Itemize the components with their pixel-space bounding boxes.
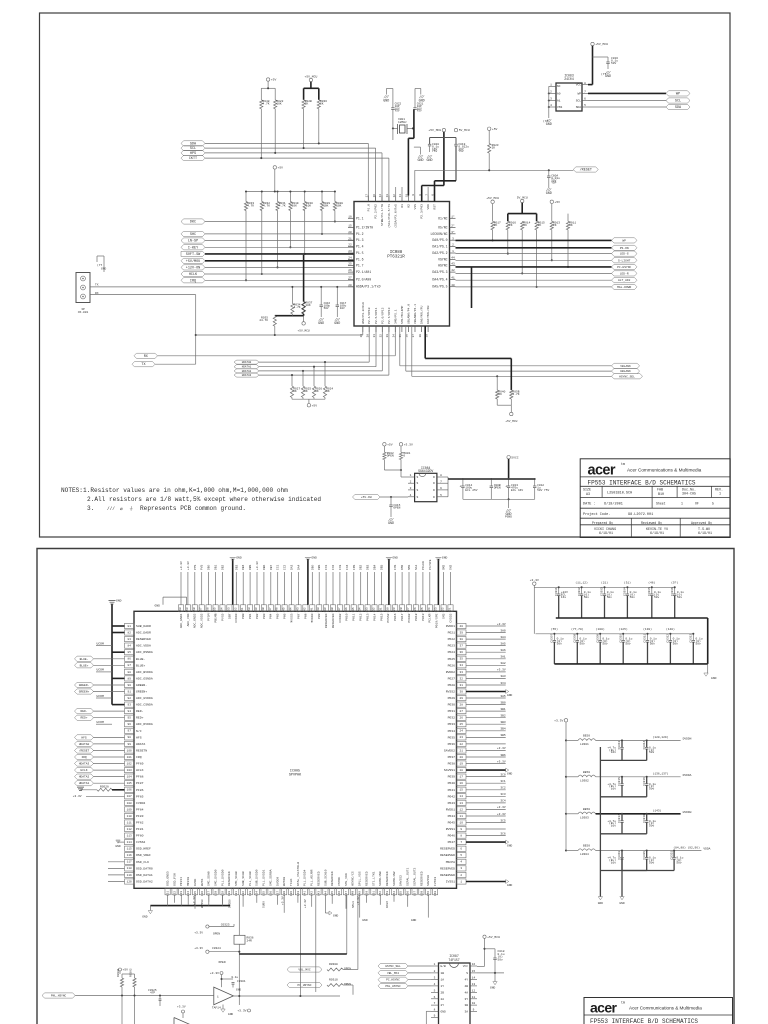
regulator IC084 cluster: [383, 443, 386, 446]
node bus-to-IC verticals: [367, 143, 369, 201]
svg-text:ADC_GND2: ADC_GND2: [193, 613, 197, 628]
svg-text:C0301: C0301: [555, 587, 558, 596]
svg-text:RESERVED: RESERVED: [316, 871, 320, 886]
svg-text:C0305: C0305: [648, 587, 651, 596]
svg-text:HFS: HFS: [136, 735, 142, 739]
svg-text:Sheet: Sheet: [656, 501, 666, 505]
svg-text:S: S: [417, 489, 419, 492]
wire right net p2: [466, 658, 506, 660]
wire /RESET p2: [94, 750, 125, 752]
svg-text:GND: GND: [442, 556, 448, 560]
svg-text:3B2: 3B2: [500, 715, 506, 718]
wire agnd thick stub: [112, 632, 125, 634]
svg-text:P1.0: P1.0: [366, 204, 370, 211]
svg-text:BE50: BE50: [583, 735, 590, 738]
svg-text:ADC_GND1: ADC_GND1: [179, 613, 183, 628]
svg-text:2K: 2K: [569, 224, 573, 227]
power +5V pull-up row: [273, 166, 276, 169]
svg-text:131: 131: [235, 891, 238, 896]
svg-text:98.L2072.001: 98.L2072.001: [628, 513, 653, 517]
svg-text:C0315: C0315: [618, 777, 621, 786]
svg-text:PT6321R: PT6321R: [387, 256, 405, 260]
svg-text:GND: GND: [619, 902, 625, 905]
svg-text:140: 140: [297, 891, 300, 896]
power +3.3V comp: [220, 972, 223, 975]
svg-text:37: 37: [412, 334, 415, 338]
svg-text:PCLKR: PCLKR: [428, 613, 432, 622]
wire VBLANK route: [399, 326, 401, 366]
svg-text:VBL_MX4: VBL_MX4: [387, 972, 399, 975]
svg-text:GND: GND: [318, 322, 324, 326]
svg-text:PF80: PF80: [136, 834, 144, 838]
svg-text:1: 1: [217, 996, 219, 999]
page 1 sheet border: [40, 13, 731, 537]
svg-text:IC1: IC1: [277, 564, 280, 570]
gnd eeprom: [546, 119, 551, 122]
svg-text:HSO/P3.0/RxD: HSO/P3.0/RxD: [361, 302, 365, 324]
svg-text:PS-ON: PS-ON: [620, 247, 629, 250]
flag /RESET p2: [75, 748, 94, 753]
svg-text:129: 129: [221, 891, 224, 896]
svg-text:+: +: [505, 486, 507, 490]
svg-text:13: 13: [460, 802, 464, 805]
svg-text:tm: tm: [621, 463, 625, 467]
wire IRQ p2: [94, 756, 125, 758]
wire bead gnd rails: [599, 747, 601, 897]
svg-text:P012: P012: [359, 613, 363, 620]
capacitor C014: [462, 479, 464, 486]
svg-text:DA4/PS.4: DA4/PS.4: [432, 277, 447, 281]
resistor R025: [302, 371, 304, 386]
gnd C020: [429, 146, 431, 152]
svg-text:156: 156: [407, 891, 410, 896]
svg-text:23: 23: [348, 250, 352, 253]
svg-text:SG6432DV: SG6432DV: [418, 469, 433, 473]
svg-text:IO5: IO5: [394, 564, 397, 570]
svg-text:24: 24: [460, 730, 464, 733]
capacitor C8301: [222, 978, 234, 980]
resistor R048: [260, 100, 263, 109]
wire +5V/MOU: [205, 260, 354, 262]
svg-text:SHC: SHC: [190, 233, 196, 237]
svg-text:2: 2: [434, 970, 436, 973]
svg-text:C0303: C0303: [601, 587, 604, 596]
svg-text:P017: P017: [400, 613, 404, 620]
wire HDATA3 p2: [94, 763, 125, 765]
svg-text:SAVSS0: SAVSS0: [426, 875, 430, 886]
wire HFS p2: [94, 736, 125, 738]
svg-text:RESETN: RESETN: [136, 749, 147, 753]
svg-text:DVDD: DVDD: [193, 879, 197, 886]
svg-text:SMC_SDA0: SMC_SDA0: [207, 871, 211, 886]
wire uart mid bus: [196, 334, 363, 336]
svg-text:2K: 2K: [320, 103, 324, 106]
wire PC-HSYNC: [456, 266, 612, 268]
svg-text:142: 142: [303, 607, 306, 612]
wire M001 net: [400, 460, 402, 477]
svg-text:HCLK: HCLK: [189, 273, 198, 277]
svg-text:C0310: C0310: [619, 634, 622, 643]
svg-text:3*: 3*: [451, 230, 455, 234]
wire right net p2: [466, 736, 506, 738]
svg-text:(125): (125): [619, 627, 628, 631]
svg-text:SOFT-SW: SOFT-SW: [186, 253, 201, 257]
svg-text:24C04: 24C04: [564, 77, 574, 81]
svg-text:OPEN: OPEN: [387, 454, 394, 457]
svg-text:IRQ: IRQ: [81, 756, 87, 759]
svg-text:13: 13: [386, 194, 389, 198]
svg-text:GND: GND: [228, 1013, 233, 1016]
wire agnd thick stub: [112, 651, 125, 653]
svg-text:PO25: PO25: [448, 657, 456, 661]
svg-text:HFS: HFS: [81, 736, 87, 739]
svg-text:3C3: 3C3: [500, 793, 506, 796]
svg-text:6/19/01: 6/19/01: [599, 531, 613, 536]
svg-text:PO21: PO21: [448, 631, 456, 635]
svg-text:PF85: PF85: [136, 794, 144, 798]
wire OSD stubs: [108, 861, 125, 863]
svg-text:10K: 10K: [336, 205, 341, 208]
svg-text:GND: GND: [507, 884, 513, 887]
svg-text:OPEN: OPEN: [494, 486, 501, 489]
svg-text:102: 102: [127, 762, 132, 765]
svg-text:MVSS3: MVSS3: [290, 613, 294, 622]
svg-text:154: 154: [393, 891, 396, 896]
svg-text:29: 29: [360, 334, 363, 338]
svg-text:(55): (55): [551, 627, 558, 631]
svg-text:/RESET: /RESET: [580, 168, 592, 173]
svg-text:GND: GND: [417, 159, 423, 163]
svg-text:42: 42: [451, 269, 455, 272]
svg-text:PO36: PO36: [448, 742, 456, 746]
svg-text:P2.6/OP12: P2.6/OP12: [380, 307, 384, 324]
svg-text:HDATA2: HDATA2: [242, 370, 252, 373]
svg-text:P2.4/OP10: P2.4/OP10: [367, 307, 371, 324]
svg-text:27: 27: [460, 710, 464, 713]
svg-text:139: 139: [324, 607, 327, 612]
svg-text:124: 124: [428, 607, 431, 612]
IC088 right pins: [450, 217, 456, 219]
svg-text:RVSS2: RVSS2: [446, 690, 455, 694]
capacitor C015: [390, 497, 392, 505]
svg-text:26: 26: [460, 717, 464, 720]
svg-text:P010: P010: [345, 613, 349, 620]
gnd C018: [493, 982, 497, 985]
svg-text:147: 147: [345, 891, 348, 896]
svg-text:4: 4: [410, 494, 412, 497]
svg-text:SH2: SH2: [450, 564, 453, 570]
svg-text:50v: 50v: [654, 596, 659, 599]
svg-text:CVDD2: CVDD2: [448, 613, 452, 622]
title row3 p1: [601, 486, 603, 497]
IC005 top wires and labels: [180, 572, 182, 605]
svg-text:108: 108: [127, 802, 132, 805]
wire C019 to RST: [455, 146, 457, 181]
svg-text:127: 127: [208, 891, 211, 896]
svg-text:34: 34: [393, 334, 396, 338]
svg-text:+3.3V: +3.3V: [304, 899, 307, 908]
svg-text:106: 106: [127, 789, 132, 792]
svg-text:14: 14: [460, 795, 464, 798]
svg-text:50v: 50v: [607, 596, 612, 599]
svg-text:103: 103: [127, 769, 132, 772]
svg-text:24: 24: [348, 257, 352, 260]
svg-text:P05: P05: [276, 613, 280, 619]
svg-text:16v: 16v: [561, 596, 566, 599]
svg-text:PC-HSYNC: PC-HSYNC: [617, 266, 631, 269]
svg-text:PLL_DVDD4: PLL_DVDD4: [303, 869, 307, 886]
svg-text:150: 150: [365, 891, 368, 896]
svg-text:3B5: 3B5: [500, 734, 506, 737]
svg-text:5: 5: [584, 104, 586, 107]
title row6 p1: [630, 518, 632, 537]
svg-text:+5V: +5V: [492, 127, 498, 131]
wire right net p2: [466, 802, 506, 804]
svg-text:HDATA3: HDATA3: [79, 763, 90, 766]
svg-text:OPEN: OPEN: [219, 961, 226, 964]
wire right net p2: [466, 828, 506, 830]
svg-text:K2: K2: [406, 204, 410, 208]
svg-text:RVSS1: RVSS1: [446, 827, 455, 831]
svg-text:TX: TX: [141, 363, 145, 367]
svg-text:KTAL_VSLSTKLH: KTAL_VSLSTKLH: [296, 862, 300, 886]
svg-text:ADC_RSNDA: ADC_RSNDA: [136, 650, 153, 654]
resistor R035: [273, 316, 276, 327]
svg-text:L0304: L0304: [580, 853, 589, 856]
wire right net p2: [466, 815, 506, 817]
svg-text:91: 91: [128, 690, 132, 693]
wire BLUE- p2: [94, 658, 125, 660]
svg-text:PVS5: PVS5: [220, 613, 224, 620]
wire C020/C019 bracket: [430, 137, 456, 139]
svg-text:PO44: PO44: [448, 814, 456, 818]
svg-text:GND: GND: [711, 676, 717, 680]
svg-text:87: 87: [128, 664, 132, 667]
wire R031 to row: [277, 211, 279, 268]
wire S row: [477, 972, 504, 974]
svg-text:143: 143: [297, 607, 300, 612]
svg-text:P1.7: P1.7: [356, 263, 364, 267]
IC005 right pin boxes: [457, 623, 467, 628]
svg-text:16v: 16v: [611, 825, 616, 828]
svg-text:138: 138: [331, 607, 334, 612]
svg-text:DB1: DB1: [215, 564, 218, 570]
resistor M001: [400, 446, 402, 452]
svg-text:GND: GND: [115, 845, 121, 848]
svg-text:GREEN-: GREEN-: [136, 683, 147, 687]
svg-text:30: 30: [460, 690, 464, 693]
svg-text:3C6: 3C6: [500, 832, 506, 835]
svg-text:29: 29: [460, 697, 464, 700]
wire right net p2: [466, 717, 506, 719]
svg-text:101: 101: [127, 756, 132, 759]
svg-text:134: 134: [359, 607, 362, 612]
wire right net p2: [466, 750, 506, 752]
svg-text:C8301: C8301: [237, 980, 246, 983]
svg-text:1: 1: [681, 501, 683, 505]
svg-text:RVDD2: RVDD2: [446, 670, 455, 674]
svg-text:+3.3V: +3.3V: [497, 813, 506, 816]
resistor R028: [334, 192, 336, 202]
svg-text:P018: P018: [414, 613, 418, 620]
IC088 top stubs: [395, 187, 397, 196]
svg-text:141: 141: [310, 607, 313, 612]
flag ALT_ADJ: [612, 278, 638, 283]
svg-text:2K: 2K: [326, 390, 330, 393]
svg-text:141: 141: [304, 891, 307, 896]
svg-text:Prepared By: Prepared By: [592, 521, 613, 525]
svg-text:23: 23: [460, 736, 464, 739]
svg-text:DKC: DKC: [190, 221, 196, 225]
wire WP: [456, 239, 612, 241]
svg-text:+3.3V: +3.3V: [497, 806, 506, 809]
wire MAL-DOWN: [456, 286, 612, 288]
gnd comp: [222, 1005, 224, 1010]
svg-text:50v: 50v: [584, 596, 589, 599]
svg-text:16v: 16v: [611, 751, 616, 754]
wire L0304 net: [596, 850, 702, 852]
svg-text:100: 100: [127, 749, 132, 752]
wire R013 down: [551, 230, 553, 260]
svg-text:3C5: 3C5: [500, 819, 506, 822]
gnd C016 uart: [319, 318, 324, 321]
wire right net p2: [466, 677, 506, 679]
flag /RESET: [573, 167, 598, 172]
svg-text:L0303: L0303: [580, 816, 589, 819]
svg-text:32: 32: [460, 677, 464, 680]
svg-text:C0320: C0320: [643, 851, 646, 860]
svg-text:36: 36: [460, 651, 464, 654]
svg-text:(31): (31): [624, 581, 631, 585]
svg-text:PO/SPE: PO/SPE: [428, 559, 432, 570]
svg-text:PO42: PO42: [448, 794, 456, 798]
svg-text:86: 86: [128, 658, 132, 661]
svg-text:+12V-ON: +12V-ON: [186, 266, 200, 270]
svg-text:2K: 2K: [494, 224, 498, 227]
svg-text:RST: RST: [433, 204, 437, 210]
capacitor C00B: [490, 479, 492, 486]
svg-text:149: 149: [255, 607, 258, 612]
flag HDATA3: [234, 373, 259, 377]
svg-text:+3.3V: +3.3V: [194, 932, 203, 935]
svg-text:125: 125: [421, 607, 424, 612]
resistor R015: [535, 221, 538, 230]
svg-text:4.7K: 4.7K: [263, 103, 270, 106]
svg-text:304-C05: 304-C05: [682, 493, 696, 497]
wire L0303 net: [596, 813, 681, 815]
svg-text:HDATA2: HDATA2: [79, 776, 90, 779]
svg-text:DA6/MXL/FU: DA6/MXL/FU: [420, 306, 424, 324]
svg-text:SDA: SDA: [675, 106, 682, 110]
svg-text:PO39: PO39: [448, 775, 456, 779]
svg-text:SCL: SCL: [675, 100, 681, 104]
svg-text:DB7: DB7: [227, 613, 231, 619]
svg-text:IO4: IO4: [346, 564, 349, 570]
wire right net p2: [466, 723, 506, 725]
svg-text:5V_MCU: 5V_MCU: [459, 128, 470, 132]
svg-text:L0301: L0301: [580, 743, 589, 746]
svg-text:C0308: C0308: [574, 634, 577, 643]
svg-text:RED-: RED-: [80, 710, 87, 713]
svg-text:+3.3V: +3.3V: [180, 561, 183, 570]
svg-text:5: 5: [712, 501, 714, 505]
svg-text:RESERVED: RESERVED: [364, 871, 368, 886]
flag VBL_MXC: [287, 967, 322, 972]
wire comp input: [75, 995, 214, 997]
svg-text:P07: P07: [296, 613, 300, 619]
svg-text:135: 135: [352, 607, 355, 612]
svg-text:C0321: C0321: [670, 851, 673, 860]
svg-text:GND: GND: [426, 159, 432, 163]
svg-text:PO45: PO45: [448, 821, 456, 825]
capacitor C0313: [621, 740, 623, 747]
resistor R024: [324, 362, 326, 386]
svg-text:50v: 50v: [580, 642, 585, 645]
svg-text:15: 15: [472, 970, 476, 973]
wire R group bottom bracket: [292, 398, 325, 400]
svg-text:OSD_CLK: OSD_CLK: [136, 860, 149, 864]
svg-text:(5?): (5?): [671, 581, 678, 585]
svg-text:(21): (21): [601, 581, 608, 585]
wire RxD return: [158, 355, 396, 357]
svg-text:47P: 47P: [150, 992, 155, 995]
IC088 left pins: [348, 217, 354, 219]
svg-text:PF87: PF87: [136, 781, 144, 785]
svg-text:ECL 16V: ECL 16V: [511, 489, 523, 492]
svg-text:FAB: FAB: [657, 489, 663, 493]
svg-text:88: 88: [128, 671, 132, 674]
svg-text:+3.3V: +3.3V: [554, 718, 563, 722]
svg-text:15: 15: [460, 789, 464, 792]
svg-text:LED-G: LED-G: [620, 253, 629, 256]
IC005 top pin boxes: [178, 605, 183, 612]
svg-text:136: 136: [269, 891, 272, 896]
svg-text:3A5: 3A5: [500, 695, 506, 698]
resistor R040: [496, 376, 498, 390]
svg-text:8: 8: [434, 1008, 436, 1011]
svg-text:GND: GND: [142, 916, 148, 919]
svg-text:UCOM: UCOM: [97, 641, 104, 645]
svg-text:KEVIN-TE YU: KEVIN-TE YU: [646, 528, 668, 532]
wire right net p2: [466, 789, 506, 791]
svg-text:122: 122: [442, 607, 445, 612]
svg-text:(11,12): (11,12): [575, 581, 588, 585]
svg-text:DA5/PS.5: DA5/PS.5: [432, 285, 447, 289]
svg-text:2K: 2K: [492, 147, 496, 150]
svg-text:3A3: 3A3: [500, 675, 506, 678]
svg-text:50v: 50v: [649, 788, 654, 791]
gnd top bus: [232, 559, 234, 605]
svg-text:1*: 1*: [451, 214, 455, 218]
resistor R032: [261, 192, 263, 202]
svg-text:140: 140: [317, 607, 320, 612]
svg-text:38: 38: [419, 334, 422, 338]
svg-text:C0306: C0306: [671, 587, 674, 596]
svg-text:16v: 16v: [611, 788, 616, 791]
svg-text:82: 82: [128, 631, 132, 634]
svg-text:RESERVED: RESERVED: [440, 847, 455, 851]
svg-text:3A2: 3A2: [500, 662, 506, 665]
svg-text:2K: 2K: [498, 393, 502, 396]
capacitor C019: [454, 143, 457, 145]
flag WP: [612, 238, 638, 243]
svg-text:81: 81: [128, 625, 132, 628]
svg-text:144: 144: [290, 607, 293, 612]
svg-text:OPEN: OPEN: [344, 968, 351, 971]
svg-text:2*: 2*: [451, 224, 455, 228]
svg-text:PF81: PF81: [136, 827, 144, 831]
svg-text:+3.3V: +3.3V: [237, 1009, 246, 1013]
